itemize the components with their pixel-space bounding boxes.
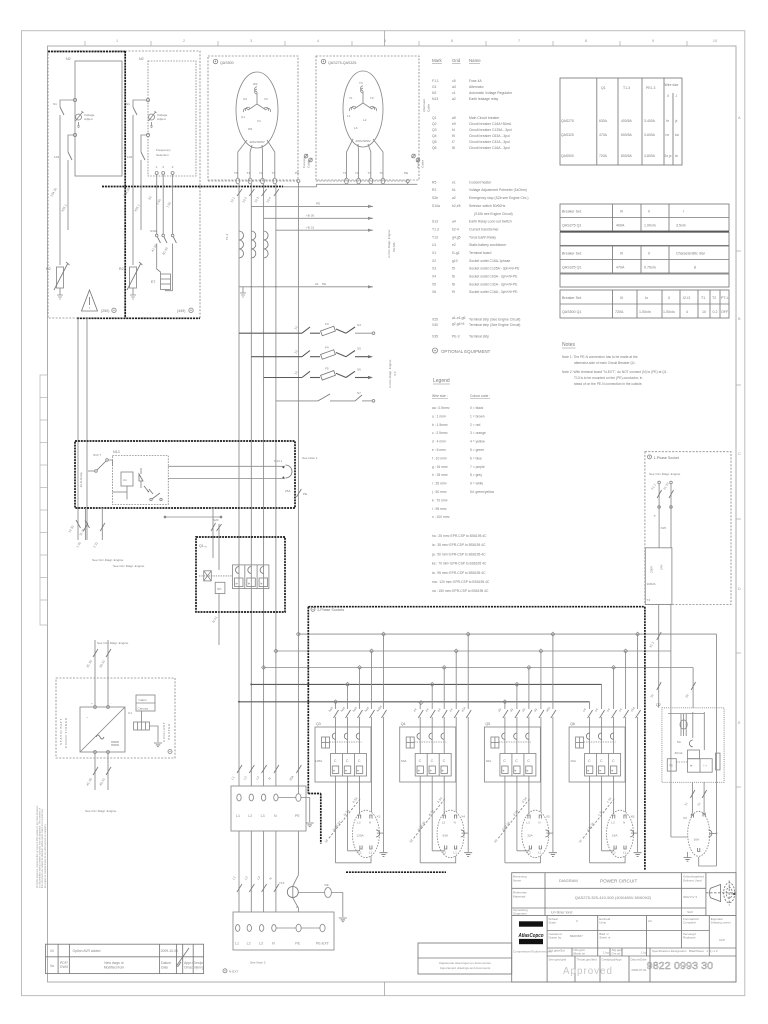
svg-text:S1: S1 — [126, 102, 130, 106]
svg-text:T1.3: T1.3 — [432, 228, 439, 232]
svg-text:Circuit breaker C63A - 3pol: Circuit breaker C63A - 3pol — [469, 134, 510, 138]
circuit breaker Q6 and socket X6 — [569, 634, 642, 863]
svg-text:e : 6 mm²: e : 6 mm² — [432, 448, 447, 452]
svg-text:DIAGRAM: DIAGRAM — [559, 878, 578, 883]
svg-text:Terminal board: Terminal board — [469, 251, 492, 255]
svg-text:T13: T13 — [432, 235, 438, 239]
ELR-Relay option box — [75, 441, 295, 508]
svg-text:9 = white: 9 = white — [470, 482, 483, 486]
svg-text:2x jx: 2x jx — [665, 154, 672, 158]
svg-text:104: 104 — [54, 155, 59, 159]
alternator box QAS500 — [208, 56, 300, 184]
svg-text:a : 1 mm²: a : 1 mm² — [432, 414, 447, 418]
svg-text:i : 35 mm²: i : 35 mm² — [432, 482, 448, 486]
svg-text:Circuit breaker C16A - 3pol: Circuit breaker C16A - 3pol — [469, 146, 510, 150]
svg-text:Scale: Scale — [549, 921, 557, 925]
svg-text:Q5: Q5 — [485, 722, 490, 726]
svg-text:Breaker Set.: Breaker Set. — [562, 252, 582, 256]
svg-text:T1.3: T1.3 — [225, 234, 229, 240]
svg-text:Earth Relay Lock-out Switch: Earth Relay Lock-out Switch — [469, 220, 512, 224]
svg-text:QAS325: QAS325 — [561, 133, 574, 137]
svg-text:ACP: ACP — [719, 938, 725, 942]
svg-text:Gegevens: Gegevens — [513, 912, 527, 916]
svg-text:jx: jx — [674, 119, 678, 123]
svg-text:X3: X3 — [377, 815, 381, 819]
svg-text:g10: g10 — [452, 259, 458, 263]
svg-text:Q2: Q2 — [656, 703, 661, 707]
svg-text:R2: R2 — [119, 267, 124, 271]
svg-text:Socket outlet C32A - 3ph+N+PE: Socket outlet C32A - 3ph+N+PE — [469, 282, 518, 286]
svg-text:f9: f9 — [452, 290, 455, 294]
svg-text:Fuse 4A: Fuse 4A — [469, 79, 482, 83]
wire U1 to engine circuit (bottom) — [93, 753, 111, 790]
svg-text:1 kg: 1 kg — [603, 951, 609, 955]
svg-text:f5: f5 — [452, 134, 455, 138]
svg-text:0.2: 0.2 — [713, 310, 718, 314]
svg-text:Drawing owner: Drawing owner — [711, 921, 731, 925]
derived drawings box — [418, 943, 512, 974]
svg-text:Q4: Q4 — [432, 134, 437, 138]
svg-text:Materiaal: Materiaal — [513, 895, 526, 899]
parts list rows — [432, 79, 529, 339]
svg-text:PE: PE — [303, 492, 307, 496]
svg-text:Compleet: Compleet — [683, 921, 696, 925]
wire U1 to engine circuit (top) — [93, 640, 111, 706]
svg-text:L2: L2 — [363, 118, 367, 122]
svg-text:30mA: 30mA — [675, 751, 684, 755]
svg-text:Delivery Used: Delivery Used — [683, 879, 702, 883]
alt2 terminal links — [283, 183, 417, 187]
svg-text:S10a: S10a — [432, 204, 440, 208]
svg-text:3-600A: 3-600A — [644, 133, 656, 137]
svg-text:F5: F5 — [325, 366, 329, 370]
svg-text:c1: c1 — [452, 91, 456, 95]
wire arrows to engine circuit — [251, 205, 373, 232]
parts list header — [432, 58, 481, 63]
svg-text:U2: U2 — [243, 97, 247, 101]
svg-text:f7: f7 — [452, 140, 455, 144]
svg-text:Note 2: With terminal board ": Note 2: With terminal board "N-EXT", do … — [562, 370, 668, 374]
svg-text:la: la — [675, 154, 678, 158]
potentiometer Voltage Adjust — [76, 114, 82, 120]
svg-text:e9: e9 — [452, 122, 456, 126]
title texts — [439, 875, 731, 973]
svg-text:h : 25 mm²: h : 25 mm² — [432, 473, 449, 477]
svg-text:S2b: S2b — [432, 196, 438, 200]
svg-text:I▸: I▸ — [248, 582, 251, 586]
svg-text:2 = red: 2 = red — [470, 423, 481, 427]
svg-text:f8: f8 — [452, 146, 455, 150]
svg-text:63A: 63A — [443, 834, 449, 838]
svg-text:ka: ka — [675, 133, 679, 137]
svg-text:A3: A3 — [648, 919, 652, 923]
svg-text:PE: PE — [295, 942, 300, 946]
svg-text:2009-10-06: 2009-10-06 — [161, 949, 178, 953]
warning triangle — [82, 290, 98, 311]
svg-text:8: 8 — [585, 39, 587, 43]
svg-text:PE: PE — [404, 171, 408, 175]
svg-text:Specification+Designation Bl: Specification+Designation Blad/Sheet 1 (… — [652, 949, 718, 953]
svg-text:3 = orange: 3 = orange — [470, 431, 486, 435]
svg-text:f4: f4 — [452, 128, 455, 132]
svg-text:f5: f5 — [452, 267, 455, 271]
svg-text:1-Phase Socket: 1-Phase Socket — [654, 456, 679, 460]
svg-text:Current transformer: Current transformer — [469, 228, 499, 232]
svg-text:a5: a5 — [452, 116, 456, 120]
svg-text:1: 1 — [156, 165, 158, 169]
svg-text:See Circ.Diagr. Engine: See Circ.Diagr. Engine — [649, 472, 681, 476]
svg-text:Notes: Notes — [562, 342, 576, 348]
svg-text:R2: R2 — [46, 267, 51, 271]
svg-text:Unity: Unity — [599, 921, 606, 925]
svg-text:b2,e5: b2,e5 — [452, 204, 461, 208]
svg-text:Q3: Q3 — [316, 722, 321, 726]
terminals T0 T1 T2 T3 — [236, 178, 240, 184]
svg-text:g : 16 mm²: g : 16 mm² — [432, 465, 449, 469]
svg-text:See Circ.Diagr. Engine: See Circ.Diagr. Engine — [97, 641, 129, 645]
svg-text:Canopy: Canopy — [416, 157, 420, 168]
svg-text:Circuit breaker C16A+30mA: Circuit breaker C16A+30mA — [469, 122, 512, 126]
svg-text:Terminal strip (See Engine Cir: Terminal strip (See Engine Circuit) — [469, 318, 520, 322]
svg-text:L2: L2 — [248, 814, 252, 818]
svg-text:be copied or communicated to a: be copied or communicated to any other p… — [44, 823, 47, 888]
svg-text:b1: b1 — [452, 188, 456, 192]
svg-text:X30: X30 — [432, 323, 438, 327]
wire stubs below ELR box — [83, 508, 222, 558]
svg-text:Afgeleende tekeningen en docum: Afgeleende tekeningen en documenten — [439, 961, 492, 965]
svg-text:Grid: Grid — [452, 58, 461, 63]
wire distribution buses PE N L3 L2 L1 — [238, 632, 717, 704]
svg-text:Cable: Cable — [427, 104, 431, 112]
svg-text:Automatic Voltage Regulator: Automatic Voltage Regulator — [469, 91, 513, 95]
svg-text:S20: S20 — [213, 518, 219, 522]
svg-text:QAS325 Q1: QAS325 Q1 — [562, 266, 581, 270]
svg-text:470A: 470A — [616, 266, 625, 270]
svg-text:(449): (449) — [177, 309, 185, 313]
alternator windings — [243, 87, 270, 112]
svg-text:10: 10 — [713, 39, 717, 43]
svg-text:10: 10 — [702, 310, 706, 314]
svg-text:720A: 720A — [615, 310, 624, 314]
svg-text:T2: T2 — [712, 296, 716, 300]
thick option marks — [48, 51, 125, 53]
svg-text:4: 4 — [686, 310, 688, 314]
svg-text:T2: T2 — [370, 96, 374, 100]
svg-text:Gewijzigd/Appr.: Gewijzigd/Appr. — [602, 958, 623, 962]
svg-text:0 = black: 0 = black — [470, 406, 484, 410]
svg-text:Canopy: Canopy — [302, 157, 306, 168]
svg-text:T3: T3 — [368, 171, 372, 175]
svg-text:0a: 0a — [50, 964, 54, 968]
circuit breaker Q2 — [662, 708, 724, 783]
wire N13 outputs to trip coil N13.1 — [168, 465, 285, 467]
svg-text:U1: U1 — [128, 711, 132, 715]
svg-text:100VA: 100VA — [647, 582, 657, 586]
svg-text:400V/480V: 400V/480V — [249, 140, 265, 144]
svg-text:X5: X5 — [432, 282, 436, 286]
svg-text:Alternator: Alternator — [422, 99, 426, 112]
svg-text:c5: c5 — [452, 79, 456, 83]
alternator G1 — [236, 72, 278, 148]
svg-text:9: 9 — [652, 39, 654, 43]
svg-text:7: 7 — [518, 39, 520, 43]
voltage regulator N2 (option 449) — [139, 57, 196, 176]
voltage regulator N2 (option 250) — [66, 57, 122, 176]
svg-text:Voltage Adjustment Potmeter (1: Voltage Adjustment Potmeter (1kOhm) — [469, 188, 527, 192]
svg-text:Mark: Mark — [432, 58, 443, 63]
svg-text:Un: Un — [123, 478, 127, 482]
svg-text:Q6: Q6 — [570, 722, 575, 726]
svg-text:S13 7: S13 7 — [93, 453, 101, 457]
svg-text:6 = blue: 6 = blue — [470, 456, 482, 460]
canopy cable label 2 — [412, 154, 416, 158]
svg-text:PE-EXT: PE-EXT — [316, 942, 330, 946]
svg-text:PT-L: PT-L — [721, 296, 729, 300]
torus earth relay T13 — [279, 881, 347, 922]
svg-text:Cabin: Cabin — [139, 698, 147, 702]
svg-text:S5: S5 — [357, 347, 361, 351]
svg-text:1.00xIo: 1.00xIo — [663, 310, 675, 314]
svg-text:QAS500 Q1: QAS500 Q1 — [562, 310, 581, 314]
svg-text:N: N — [274, 814, 277, 818]
svg-text:Canopy: Canopy — [138, 707, 149, 711]
svg-text:16A: 16A — [694, 838, 700, 842]
svg-text:1.00xIn: 1.00xIn — [644, 224, 656, 228]
svg-text:04: 04 — [50, 949, 54, 953]
wire X1 to X30 — [237, 831, 298, 912]
svg-text:R2: R2 — [432, 188, 436, 192]
svg-text:X25: X25 — [661, 526, 667, 530]
svg-text:Frequency: Frequency — [156, 148, 171, 152]
svg-text:720A: 720A — [599, 154, 608, 158]
svg-text:ELR-Relay: ELR-Relay — [79, 472, 83, 487]
svg-text:T1: T1 — [701, 296, 705, 300]
breaker set table 2 — [560, 246, 729, 287]
svg-text:SA0: SA0 — [687, 910, 693, 914]
svg-text:L1: L1 — [236, 814, 240, 818]
svg-text:N: N — [272, 942, 275, 946]
svg-text:-: - — [111, 702, 112, 706]
svg-text:+B 30: +B 30 — [306, 213, 314, 217]
svg-text:3.5xIn: 3.5xIn — [676, 224, 686, 228]
svg-text:PE1-3: PE1-3 — [646, 86, 656, 90]
Q1 shunt coil SH — [215, 582, 225, 593]
svg-text:X5: X5 — [546, 815, 550, 819]
svg-text:Emergency stop (S2b see Engine: Emergency stop (S2b see Engine Circ.) — [469, 196, 529, 200]
svg-text:I0: I0 — [620, 210, 623, 214]
svg-text:I +: I + — [704, 764, 708, 768]
svg-text:I2-I3: I2-I3 — [683, 296, 690, 300]
svg-text:S T A T I C B A T T: S T A T I C B A T T — [59, 718, 63, 745]
svg-text:k : 70 mm²: k : 70 mm² — [432, 498, 448, 502]
svg-text:3: 3 — [162, 165, 164, 169]
svg-text:PE: PE — [322, 282, 326, 286]
svg-text:POWER CIRCUIT: POWER CIRCUIT — [600, 879, 637, 884]
circuit breaker Q5 and socket X5 — [484, 634, 557, 863]
battery conditioner U1 — [56, 678, 175, 758]
svg-text:W1: W1 — [248, 127, 253, 131]
svg-text:3-400A: 3-400A — [644, 119, 656, 123]
svg-text:QAS500: QAS500 — [561, 154, 574, 158]
svg-text:Wire size: Wire size — [665, 83, 679, 87]
svg-text:T13 is to be mounted on the (P: T13 is to be mounted on the (PE)-conduct… — [574, 376, 643, 380]
svg-text:SH: SH — [217, 587, 221, 591]
svg-text:Name: Name — [513, 879, 521, 883]
svg-text:2: 2 — [172, 165, 174, 169]
svg-text:n : 100 mm²: n : 100 mm² — [432, 515, 450, 519]
svg-text:f6: f6 — [452, 275, 455, 279]
1-phase socket option box — [645, 452, 731, 605]
svg-text:R5: R5 — [432, 180, 436, 184]
svg-text:T2: T2 — [355, 171, 359, 175]
svg-text:b2-4: b2-4 — [452, 228, 459, 232]
svg-text:f : 10 mm²: f : 10 mm² — [432, 456, 448, 460]
svg-text:Q3: Q3 — [432, 128, 437, 132]
svg-text:L3: L3 — [259, 942, 263, 946]
svg-text:H E A T E R: H E A T E R — [167, 723, 171, 740]
svg-text:Selection: Selection — [156, 153, 169, 157]
svg-text:T1-3: T1-3 — [623, 86, 630, 90]
svg-text:32A: 32A — [527, 834, 533, 838]
svg-text:Circuit breaker C125A - 3pol: Circuit breaker C125A - 3pol — [469, 128, 512, 132]
svg-text:N2: N2 — [66, 57, 71, 61]
svg-text:16A: 16A — [570, 759, 576, 763]
svg-text:Io: Io — [645, 296, 648, 300]
svg-text:I0: I0 — [620, 252, 623, 256]
svg-text:Terminal strip (See Engine Cir: Terminal strip (See Engine Circuit) — [469, 323, 520, 327]
svg-text:230V: 230V — [650, 565, 654, 573]
svg-text:104: 104 — [127, 155, 132, 159]
svg-text:3-800A: 3-800A — [644, 154, 656, 158]
svg-text:G1: G1 — [432, 85, 437, 89]
wire size table — [560, 78, 682, 165]
svg-text:+B 31: +B 31 — [306, 225, 314, 229]
svg-text:I▸: I▸ — [260, 582, 263, 586]
svg-text:I0: I0 — [620, 296, 623, 300]
Q1 trip unit — [204, 571, 212, 581]
svg-text:la : 95 mm² EPR-CSP to BS6195: la : 95 mm² EPR-CSP to BS6195 4C — [432, 571, 486, 575]
svg-text:QAS500: QAS500 — [220, 61, 234, 65]
svg-text:e1: e1 — [452, 180, 456, 184]
svg-text:Static battery conditioner: Static battery conditioner — [469, 243, 507, 247]
circuit breaker Q3 and socket X3 — [315, 634, 388, 863]
svg-text:470A: 470A — [599, 133, 608, 137]
socket X2 — [688, 811, 710, 856]
wire N tap S20 — [217, 524, 222, 645]
svg-text:S4: S4 — [357, 323, 361, 327]
svg-text:Adjust: Adjust — [157, 117, 166, 121]
svg-text:N2: N2 — [139, 57, 144, 61]
svg-text:Cable: Cable — [421, 160, 425, 168]
svg-text:Name: Name — [469, 58, 481, 63]
svg-text:T1: T1 — [349, 96, 353, 100]
svg-text:E7: E7 — [151, 280, 155, 284]
svg-text:6: 6 — [451, 39, 453, 43]
svg-text:N-EXT: N-EXT — [229, 970, 238, 974]
svg-text:Socket outlet C125A - 3ph+N+PE: Socket outlet C125A - 3ph+N+PE — [469, 267, 520, 271]
box bottom dashed through terminals — [208, 180, 298, 182]
svg-text:Q1: Q1 — [601, 86, 606, 90]
svg-text:Drawn by: Drawn by — [549, 936, 562, 940]
svg-text:Socket outlet C16A - 3ph+N+PE: Socket outlet C16A - 3ph+N+PE — [469, 290, 518, 294]
svg-text:8: 8 — [694, 266, 696, 270]
svg-text:400V/480V: 400V/480V — [355, 139, 371, 143]
svg-text:F3: F3 — [325, 322, 329, 326]
svg-text:8 = grey: 8 = grey — [470, 473, 482, 477]
svg-text:Throat.geo/brid: Throat.geo/brid — [577, 958, 598, 962]
svg-text:a4: a4 — [452, 220, 456, 224]
revision table — [46, 944, 204, 973]
svg-text:QAS275-QAS325: QAS275-QAS325 — [328, 61, 356, 65]
svg-text:PE-M3: PE-M3 — [392, 242, 396, 252]
svg-text:Q4: Q4 — [401, 722, 406, 726]
svg-text:I: I — [683, 210, 684, 214]
svg-text:See Note 2: See Note 2 — [250, 961, 266, 965]
svg-text:T0: T0 — [380, 171, 384, 175]
svg-text:X25: X25 — [432, 318, 438, 322]
svg-text:Approved: Approved — [563, 966, 613, 977]
svg-text:X2: X2 — [683, 816, 687, 820]
svg-text:to Circ.Diagr. Engine: to Circ.Diagr. Engine — [387, 229, 391, 258]
svg-text:stead of on the PE-N connectio: stead of on the PE-N connection in the c… — [574, 382, 643, 386]
optional equipment — [433, 348, 438, 353]
left margin disclaimer text — [36, 805, 47, 888]
svg-text:PE: PE — [295, 171, 299, 175]
svg-text:X6: X6 — [432, 290, 436, 294]
svg-text:L1: L1 — [347, 114, 351, 118]
3-phase sockets option box — [308, 607, 645, 873]
svg-text:PE-3: PE-3 — [452, 335, 460, 339]
svg-text:Socket outlet C63A - 3ph+N+PE: Socket outlet C63A - 3ph+N+PE — [469, 275, 518, 279]
svg-text:Circuit breaker C32A - 3pol: Circuit breaker C32A - 3pol — [469, 140, 510, 144]
svg-text:Datum: Datum — [161, 961, 171, 965]
svg-text:e2: e2 — [452, 243, 456, 247]
svg-text:Torus Earth Relay: Torus Earth Relay — [469, 235, 496, 239]
svg-text:C O N D I T I O N E R: C O N D I T I O N E R — [64, 717, 68, 748]
svg-text:Datum/Date: Datum/Date — [631, 958, 647, 962]
svg-text:Compressors/Tools/mine.Yes: Compressors/Tools/mine.Yes — [513, 950, 552, 954]
svg-text:a1-e1,g6: a1-e1,g6 — [452, 316, 465, 320]
svg-text:(S10b see Engine Circuit): (S10b see Engine Circuit) — [474, 212, 513, 216]
svg-text:5 = green: 5 = green — [470, 448, 484, 452]
svg-text:(250): (250) — [101, 309, 109, 313]
current transformer T1.3 — [239, 231, 268, 258]
svg-text:a2: a2 — [452, 196, 456, 200]
circuit breaker Q4 and socket X4 — [400, 634, 473, 863]
svg-text:J: J — [676, 94, 678, 98]
svg-text:Terminal strip: Terminal strip — [469, 335, 489, 339]
svg-text:600/5A: 600/5A — [621, 133, 632, 137]
svg-text:Date: Date — [161, 966, 168, 970]
svg-text:ma : 120 mm² EPR-CSP to BS6195: ma : 120 mm² EPR-CSP to BS6195 4C — [432, 580, 490, 584]
svg-text:QAS275: QAS275 — [561, 119, 574, 123]
texts — [431, 58, 729, 593]
svg-text:QAS275-325-410-500 (400/480V-5: QAS275-325-410-500 (400/480V-50/60HZ) — [575, 895, 652, 900]
svg-text:1 = brown: 1 = brown — [470, 414, 485, 418]
svg-text:Q1: Q1 — [199, 544, 204, 548]
svg-text:g2,g4+5: g2,g4+5 — [452, 322, 464, 326]
svg-text:X4: X4 — [461, 815, 465, 819]
svg-text:ka : 70 mm² EPR-CSP to BS6195: ka : 70 mm² EPR-CSP to BS6195 4C — [432, 562, 487, 566]
svg-text:S6: S6 — [357, 367, 361, 371]
wire bus L1 L2 L3 N — [239, 184, 276, 786]
fuses F3 F4 F5 and switches S4-S7 — [239, 326, 375, 402]
wire N2.2 terminals — [133, 100, 173, 265]
svg-text:TE: TE — [669, 764, 673, 768]
svg-text:3002 KV 3: 3002 KV 3 — [683, 895, 697, 899]
svg-text:W2: W2 — [253, 82, 258, 86]
svg-text:Alternator: Alternator — [469, 85, 485, 89]
